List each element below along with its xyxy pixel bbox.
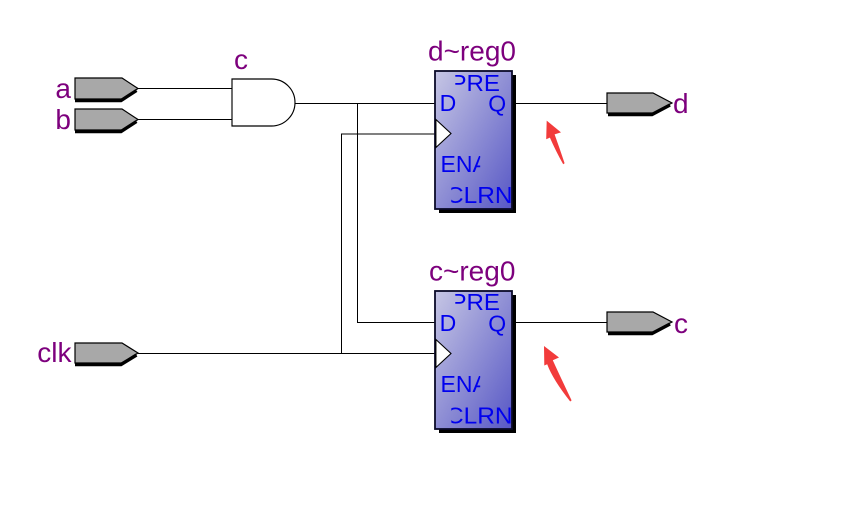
shadow (439, 75, 516, 213)
svg-text:a: a (55, 73, 71, 104)
svg-text:CLRN: CLRN (446, 182, 513, 208)
svg-text:c: c (674, 308, 688, 339)
body (435, 291, 512, 429)
register d~reg0 (435, 70, 516, 213)
wire c~reg0 Q to output pin c (512, 322, 607, 324)
output pin d (607, 93, 672, 115)
wire net c: AND output to d~reg0 D input (295, 103, 436, 105)
svg-text:D: D (440, 90, 457, 116)
svg-text:CLRN: CLRN (446, 403, 513, 429)
body (435, 71, 512, 209)
input pin clk (75, 343, 138, 365)
input pin a (75, 78, 138, 101)
svg-text:D: D (440, 310, 457, 336)
svg-text:Q: Q (488, 91, 506, 117)
svg-text:b: b (55, 104, 71, 135)
svg-text:d~reg0: d~reg0 (428, 36, 516, 67)
clock triangle (436, 120, 451, 148)
wire b to AND gate (138, 119, 232, 121)
clock triangle (436, 340, 451, 368)
shadow (439, 295, 516, 433)
svg-text:Q: Q (488, 311, 506, 337)
register c~reg0 (435, 289, 516, 433)
svg-text:clk: clk (37, 337, 72, 368)
wire clk vertical branch to d~reg0 clock input (342, 134, 436, 354)
wire d~reg0 Q to output pin d (512, 103, 607, 105)
svg-text:c~reg0: c~reg0 (429, 256, 515, 287)
svg-text:c: c (234, 44, 248, 75)
wire a to AND gate (138, 88, 232, 90)
annotation red arrow 1 (546, 121, 564, 165)
input pin b (75, 109, 138, 132)
AND gate c (232, 79, 295, 126)
annotation red arrow 2 (544, 346, 572, 402)
wire clk to c~reg0 clock input (138, 353, 435, 355)
wire net c vertical branch (358, 103, 436, 323)
svg-text:d: d (673, 88, 689, 119)
output pin c (607, 312, 672, 334)
